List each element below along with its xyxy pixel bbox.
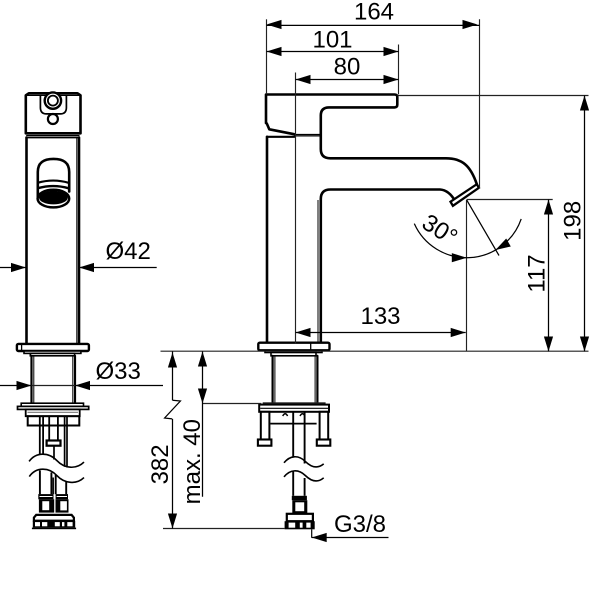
svg-text:Ø42: Ø42 bbox=[106, 238, 151, 265]
svg-text:80: 80 bbox=[334, 53, 361, 80]
svg-text:Ø33: Ø33 bbox=[96, 358, 141, 385]
svg-text:117: 117 bbox=[523, 254, 550, 292]
svg-text:101: 101 bbox=[312, 26, 352, 53]
svg-text:382: 382 bbox=[147, 444, 174, 484]
svg-text:G3/8: G3/8 bbox=[334, 511, 386, 538]
svg-text:164: 164 bbox=[354, 0, 394, 26]
svg-text:max. 40: max. 40 bbox=[179, 419, 206, 504]
svg-text:198: 198 bbox=[559, 201, 586, 241]
svg-text:133: 133 bbox=[360, 303, 400, 330]
